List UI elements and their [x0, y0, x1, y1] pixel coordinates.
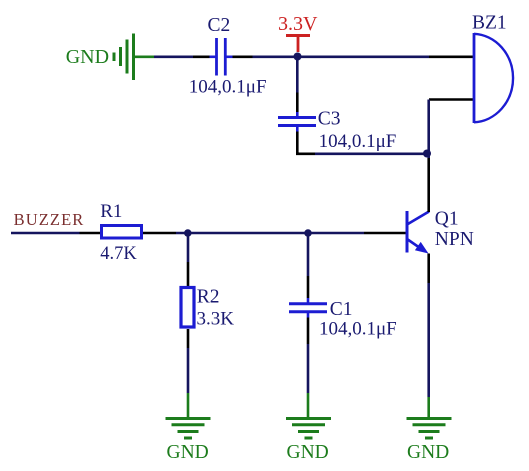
wire 3.3V junction down to C3 — [296, 57, 299, 93]
svg-text:GND: GND — [66, 46, 109, 68]
wire C1 to GND — [307, 344, 310, 393]
junction dot R2 node — [184, 229, 192, 237]
svg-text:4.7K: 4.7K — [100, 244, 137, 264]
wire BZ1 bottom pin down to C3 node — [427, 100, 430, 154]
capacitor C2 — [210, 38, 253, 76]
ground power port GND1 (top left, horizontal battery-style) — [114, 34, 154, 81]
svg-text:104,0.1μF: 104,0.1μF — [319, 131, 397, 152]
wire 3.3V junction to BZ1 — [298, 55, 429, 58]
svg-text:R1: R1 — [100, 201, 122, 222]
svg-text:GND: GND — [407, 442, 449, 463]
buzzer BZ1 — [429, 33, 513, 123]
svg-text:104,0.1μF: 104,0.1μF — [189, 77, 267, 98]
svg-text:BZ1: BZ1 — [472, 13, 507, 34]
resistor R2 — [181, 262, 194, 348]
wire R1 to Q1 base — [176, 232, 364, 235]
wire Q1 emitter to GND — [427, 283, 430, 397]
ground power port GND2 (below R2) — [166, 393, 211, 438]
svg-text:BUZZER: BUZZER — [14, 210, 85, 229]
svg-text:GND: GND — [287, 442, 329, 463]
junction dot C3 / collector node — [423, 150, 431, 158]
svg-text:3.3V: 3.3V — [278, 13, 318, 35]
junction dot C1 node — [304, 229, 312, 237]
ground power port GND4 (below Q1) — [407, 397, 452, 438]
ground power port GND3 (below C1) — [286, 393, 331, 438]
junction dot at 3.3V node — [294, 53, 302, 61]
svg-text:C1: C1 — [330, 299, 353, 320]
wire R2 to GND — [187, 348, 190, 393]
svg-text:Q1: Q1 — [435, 208, 459, 229]
svg-text:R2: R2 — [197, 287, 220, 308]
wire C2 to 3.3V junction — [253, 55, 297, 58]
svg-text:104,0.1μF: 104,0.1μF — [319, 319, 397, 340]
capacitor C1 — [289, 276, 327, 344]
svg-text:NPN: NPN — [435, 229, 474, 250]
capacitor C3 — [278, 93, 316, 154]
wire BUZZER to R1 — [11, 232, 80, 235]
svg-text:3.3K: 3.3K — [197, 309, 235, 330]
wire R2 node down — [187, 233, 190, 262]
svg-text:C3: C3 — [318, 108, 341, 129]
power port 3.3V (red bar symbol) — [286, 36, 310, 53]
wire C1 node down — [307, 233, 310, 276]
wire GND1 to C2 — [154, 55, 210, 58]
transistor Q1 — [364, 154, 429, 284]
svg-text:GND: GND — [167, 442, 209, 463]
wire C3 to junction (horizontal) — [297, 152, 427, 154]
resistor R1 — [80, 226, 177, 239]
svg-text:C2: C2 — [208, 15, 231, 36]
